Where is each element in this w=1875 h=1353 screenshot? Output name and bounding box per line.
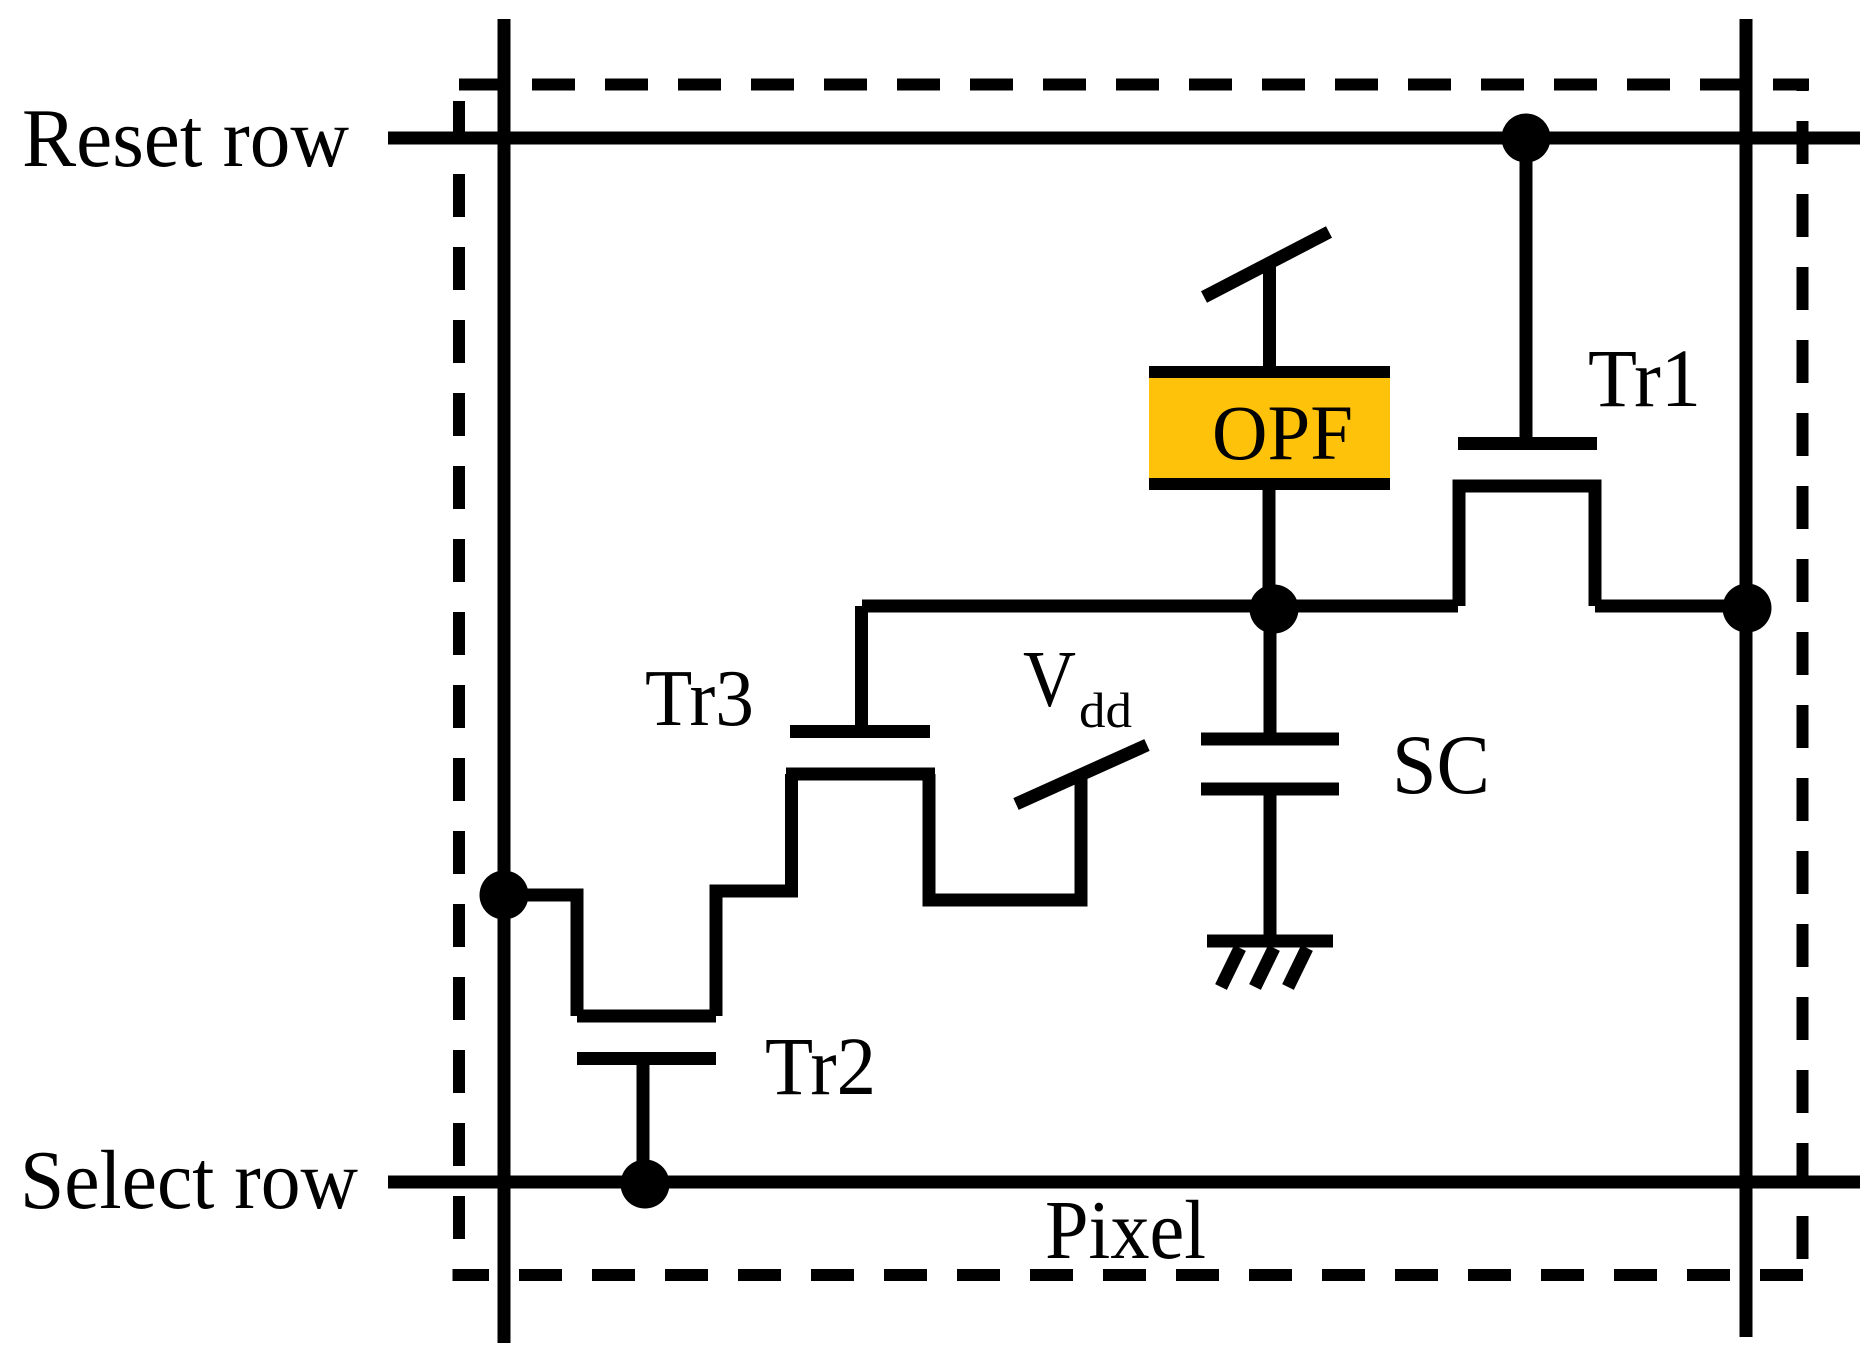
OPF terminal slash: [1204, 232, 1329, 297]
wire OPF bottom to node: [1263, 490, 1276, 606]
capacitor SC top plate: [1201, 733, 1339, 746]
svg-text:SC: SC: [1392, 718, 1490, 812]
wire Tr1 to right column: [1595, 600, 1746, 613]
select row line: [388, 1176, 1860, 1189]
wire node to capacitor: [1264, 607, 1277, 734]
wire Tr2 source to left column: [504, 895, 577, 1016]
pixel boundary dashed box left: [453, 90, 465, 1281]
wire Tr3 source staircase down to Tr2: [716, 774, 792, 1016]
transistor Tr2 channel bar: [577, 1010, 716, 1023]
left column line: [498, 19, 511, 1343]
svg-text:Select row: Select row: [20, 1134, 358, 1227]
OPF bottom electrode bar: [1149, 478, 1390, 490]
svg-text:Tr2: Tr2: [765, 1020, 876, 1112]
ground hatch 3: [1288, 948, 1307, 987]
OPF top terminal stem: [1263, 259, 1276, 366]
svg-text:Pixel: Pixel: [1045, 1184, 1206, 1277]
transistor Tr2 gate stem wire: [637, 1058, 650, 1182]
right column line: [1740, 19, 1753, 1337]
Vdd terminal slash: [1016, 745, 1147, 804]
wire Tr3 drain to Vdd terminal: [929, 772, 1081, 900]
svg-text:Tr1: Tr1: [1588, 332, 1701, 424]
pixel boundary dashed box bottom: [453, 1269, 1810, 1281]
wire node to Tr1: [862, 600, 1458, 613]
transistor Tr1 gate bar: [1458, 437, 1597, 450]
pixel boundary dashed box right: [1797, 90, 1809, 1281]
node dot on select row (Tr2 gate): [621, 1160, 670, 1209]
svg-text:V: V: [1023, 634, 1076, 724]
svg-text:OPF: OPF: [1212, 389, 1353, 476]
transistor Tr3 channel bar: [786, 768, 935, 781]
svg-text:Reset row: Reset row: [22, 92, 349, 185]
node dot OPF/SC/Tr3 junction: [1250, 585, 1299, 634]
pixel boundary dashed box top: [452, 79, 1809, 91]
OPF top electrode bar: [1149, 366, 1390, 378]
OPF body orange box: [1149, 366, 1390, 490]
node dot on left column (Tr2 source): [480, 871, 529, 920]
transistor Tr3 gate stem wire: [855, 606, 868, 731]
ground hatch 2: [1255, 948, 1274, 987]
transistor Tr3 gate bar: [790, 725, 930, 738]
ground hatch 1: [1221, 948, 1240, 987]
node dot on reset row (Tr1 gate): [1502, 114, 1551, 163]
transistor Tr1 channel: [1459, 486, 1595, 606]
ground bar: [1207, 935, 1333, 948]
transistor Tr2 gate bar: [577, 1052, 716, 1065]
node dot on right column: [1723, 584, 1772, 633]
svg-text:Tr3: Tr3: [645, 655, 754, 743]
reset row line: [388, 132, 1860, 145]
wire capacitor to ground: [1264, 789, 1277, 941]
capacitor SC bottom plate: [1201, 783, 1339, 796]
svg-text:dd: dd: [1079, 682, 1132, 738]
transistor Tr1 gate stem wire: [1520, 138, 1533, 438]
